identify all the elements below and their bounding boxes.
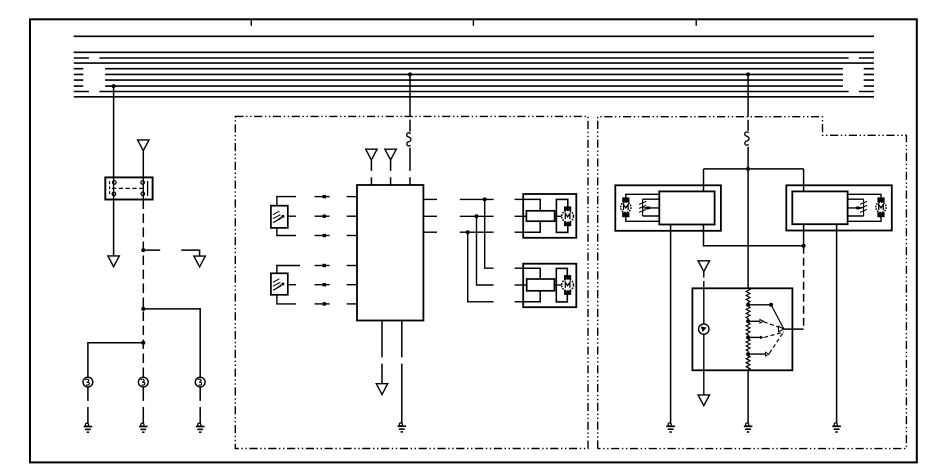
wire relay supply drop: [113, 86, 115, 177]
lamp E2 (tail lamp center): [138, 377, 148, 387]
connector J1 (inline, ECU supply): [407, 133, 411, 146]
wire ECU output pin: [381, 321, 383, 384]
ground G3: [196, 423, 205, 432]
connector segment row 4: [315, 265, 330, 267]
headlamp H2 control block: [527, 279, 555, 291]
wire tap 4 lead: [748, 353, 765, 355]
bus wire 6: [74, 73, 874, 75]
triangle arrow B (relay output): [108, 256, 119, 267]
wire ECU left pin 4: [347, 265, 357, 267]
bus wire 8: [74, 85, 874, 87]
wire tap 1 lead: [748, 304, 771, 306]
lamp H1 bulb: [562, 206, 574, 226]
ground G2: [139, 423, 148, 432]
node tail feed junction 1: [141, 248, 145, 252]
wire M1 ground lead: [670, 225, 672, 424]
bus wire 5: [74, 68, 874, 70]
triangle arrow D (ECU feed 1): [366, 149, 377, 160]
wire selector position 4 (dashed): [769, 332, 784, 354]
wire illumination lamp to out: [703, 334, 705, 395]
sensor S2 (light control sensor lower): [271, 273, 288, 295]
alignment tick 2: [472, 19, 474, 26]
potentiometer VR2 (M2 position sensor): [857, 199, 867, 216]
resistor chain RH4: [746, 339, 750, 352]
wire M1 motor leads: [626, 194, 660, 221]
connector segment row 6: [315, 303, 330, 305]
wire feed to right motor: [803, 169, 805, 192]
wire M2 signal lead: [803, 224, 805, 246]
connector segment row 2: [315, 215, 330, 217]
wire ECU left pin 5: [347, 284, 357, 286]
relay R1 internal connector: [110, 181, 148, 196]
wire ECU left pin 1: [347, 196, 357, 198]
wire M1 signal lead: [704, 225, 804, 246]
node tap 1 end: [769, 303, 773, 307]
relay R1 through wires: [113, 177, 115, 199]
wire switch common lead: [784, 328, 804, 330]
wire headlamp H1 pin 2: [515, 215, 524, 217]
node rheostat tap 2: [746, 319, 750, 323]
wire S1 pin bottom: [277, 228, 296, 236]
wire headlamp H2 pin 2: [515, 284, 524, 286]
wire H1 block-to-bulb: [555, 215, 562, 217]
headlamp H2 bulb frame: [556, 268, 567, 302]
motor unit M1 connector block: [659, 191, 714, 224]
wire ECU supply lower: [409, 148, 411, 185]
node bus-to-leveling junction: [746, 72, 750, 76]
wire leveling supply drop: [747, 74, 749, 130]
wire tap 2 lead: [748, 320, 760, 322]
wire illumination feed (dashed): [703, 272, 705, 289]
wire headlamp branch drop 2: [477, 216, 494, 285]
wire leveling supply lower: [747, 147, 749, 169]
node headlamp branch 1: [483, 197, 487, 201]
wire ECU supply drop: [409, 74, 411, 131]
resistor chain RH2: [746, 306, 750, 319]
motor unit M2 connector block: [792, 191, 847, 224]
wire rheostat to ground: [747, 370, 749, 423]
wire ECU right pin 2: [423, 215, 437, 217]
wire headlamp feed 3: [460, 231, 494, 233]
ground G5: [666, 423, 675, 432]
wire headlamp H1 pin 1: [515, 198, 524, 200]
bus wire 10: [74, 96, 874, 98]
wire M2 ground lead: [836, 224, 838, 423]
wire ECU feed 2: [390, 160, 392, 185]
motor M1: [621, 197, 631, 217]
node tail feed junction 2: [141, 307, 145, 311]
headlamp H1 (right headlamp unit): [523, 194, 576, 238]
wire ECU feed 1: [370, 160, 372, 185]
bus wire 4: [74, 62, 874, 64]
ground G7: [744, 423, 753, 432]
connector J2 (inline, leveling supply): [745, 132, 749, 145]
ECU U1 (light control ECU): [357, 185, 423, 321]
headlamp H1 bulb frame: [556, 199, 567, 232]
wire illumination lamp lead: [703, 288, 705, 324]
wire ECU ground pin: [401, 321, 403, 423]
motor M2: [876, 197, 886, 217]
wire VR1 leads: [643, 199, 660, 216]
motor unit M1 (headlight leveling motor left): [615, 185, 721, 231]
node headlamp branch 2: [475, 214, 479, 218]
node leveling signal junction: [802, 244, 806, 248]
triangle arrow E (ECU feed 2): [385, 149, 396, 160]
wire headlamp feed 2: [460, 215, 494, 217]
wire headlamp H2 pin 3: [515, 301, 524, 303]
wire VR2 leads: [848, 199, 864, 216]
wire relay output left: [113, 200, 115, 256]
node rheostat tap 3: [746, 335, 750, 339]
lamp L1 (switch illumination): [699, 324, 709, 334]
wire ECU left pin 3: [347, 235, 357, 237]
wire center lamp to ground: [142, 387, 144, 423]
component box: light control ECU unit: [235, 116, 588, 448]
triangle arrow G (illumination feed): [698, 261, 709, 272]
wire headlamp H1 pin 3: [515, 231, 524, 233]
headlamp H1 control block: [526, 211, 554, 221]
wire selector position 2 (dashed): [764, 322, 784, 329]
wire ECU right pin 1: [423, 198, 437, 200]
component box: headlight leveling system: [598, 117, 907, 449]
alignment tick 3: [695, 19, 697, 26]
wire rheostat feed: [747, 169, 749, 289]
wire S1 pin mid: [288, 215, 296, 217]
resistor chain RH3: [746, 323, 750, 336]
wire switch arm: [181, 250, 199, 256]
selector wiper contact: [779, 326, 784, 332]
potentiometer VR1 (M1 position sensor): [639, 199, 649, 216]
triangle arrow C (switch output): [194, 256, 205, 267]
wire selector position 3 (dashed): [764, 332, 784, 337]
wire H2 block-to-bulb: [554, 284, 561, 286]
wire S2 pin mid: [288, 284, 296, 286]
triangle arrow H (illumination return): [698, 395, 709, 406]
node rheostat tap 1: [746, 303, 750, 307]
lamp H2 bulb: [562, 275, 574, 295]
relay R1 (taillight control relay block): [105, 177, 152, 199]
wire ECU right pin 3: [423, 231, 437, 233]
wire selector position 1: [771, 305, 784, 329]
wire feed to left motor: [703, 169, 705, 192]
bus wire 1: [74, 35, 874, 37]
wire headlamp branch drop 3: [468, 232, 494, 302]
triangle arrow A (feed to relay): [138, 140, 149, 151]
resistor chain RH1 (rheostat): [746, 289, 750, 304]
connector segment row 3: [315, 235, 330, 237]
node bus-to-ECU junction: [408, 72, 412, 76]
node bus-to-relay junction: [112, 84, 116, 88]
wire headlamp feed 1: [460, 198, 494, 200]
wire tap 3 lead: [748, 336, 760, 338]
ground G4: [398, 423, 407, 432]
wire arrow-to-relay: [142, 151, 144, 178]
wire headlamp H2 pin 1: [515, 267, 524, 269]
lamp E1 (tail lamp left): [83, 377, 93, 387]
node headlamp branch 3: [466, 230, 470, 234]
bus wire 3: [74, 57, 874, 59]
wire ECU left pin 6: [347, 303, 357, 305]
headlamp H2 internal wiring: [523, 268, 540, 302]
connector segment row 1: [315, 196, 330, 198]
switch SW1 (headlight leveling switch): [692, 288, 792, 370]
wire signal to switch (dashed): [803, 246, 805, 329]
bus wire 7: [74, 79, 874, 81]
sensor S1 (light control sensor upper): [271, 206, 288, 228]
wire S2 pin top: [277, 266, 300, 274]
node leveling feed junction: [746, 167, 750, 171]
wire leveling feed rail: [704, 168, 804, 170]
resistor chain RH5: [746, 356, 750, 371]
wire M2 motor leads: [848, 194, 881, 221]
triangle arrow F (ECU output): [376, 384, 387, 395]
node rheostat tap 4: [746, 352, 750, 356]
headlamp H1 internal wiring: [523, 199, 540, 232]
node tail feed junction 3: [141, 341, 145, 345]
ground G6: [832, 423, 841, 432]
wire to left tail lamp: [88, 343, 143, 378]
motor unit M2 (headlight leveling motor right): [786, 185, 892, 230]
ground G1: [84, 423, 93, 432]
wire S2 pin bottom: [277, 295, 296, 304]
wire switch stub: [143, 249, 160, 251]
bus wire 9: [74, 91, 874, 93]
wire S1 pin top: [277, 197, 296, 206]
wire ECU left pin 2: [347, 215, 357, 217]
wire to right tail lamp: [143, 309, 200, 377]
wire tail feed (dashed): [142, 200, 144, 378]
wire right lamp to ground: [199, 387, 201, 423]
alignment tick 1: [250, 19, 252, 26]
wire headlamp branch drop 1: [485, 199, 494, 268]
headlamp H2 (left headlamp unit): [523, 264, 576, 308]
wire left lamp to ground: [87, 387, 89, 423]
bus wire 2: [74, 51, 874, 53]
lamp E3 (tail lamp right): [195, 377, 205, 387]
connector segment row 5: [315, 284, 330, 286]
